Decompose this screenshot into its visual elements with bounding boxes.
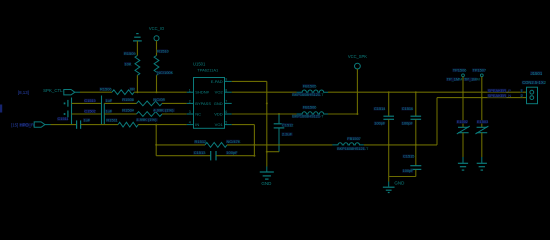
svg-text:VO2: VO2 [215, 90, 224, 95]
pin 6 VDD [214, 110, 231, 116]
svg-text:R1509: R1509 [124, 51, 137, 56]
resistor R1504 [122, 108, 175, 117]
svg-text:9: 9 [225, 78, 227, 82]
wire (C1515 return) [389, 176, 416, 178]
svg-text:1: 1 [521, 89, 523, 93]
page ref [15] [11, 122, 18, 127]
wire (C1513 row left) [156, 155, 211, 157]
ground (U1501 GND) [260, 172, 274, 186]
svg-text:[8,13]: [8,13] [18, 90, 29, 95]
svg-text:100pF: 100pF [403, 168, 415, 173]
junction (EPAD-GND) [266, 102, 268, 104]
capacitor C1510 [64, 98, 113, 107]
page ref [8,13] [18, 90, 29, 95]
svg-text:0R: 0R [130, 86, 135, 91]
svg-text:SPEAKER_N: SPEAKER_N [488, 93, 512, 98]
svg-text:E-PAD: E-PAD [211, 79, 223, 84]
svg-text:R1510: R1510 [157, 49, 170, 54]
svg-text:100pF: 100pF [402, 121, 414, 126]
capacitor C1515 [402, 145, 421, 177]
wire (node to FB1507) [254, 144, 332, 146]
ground (flipped, above R1509) [133, 34, 142, 41]
resistor R1508 [122, 97, 166, 106]
resistor R1509 [124, 51, 140, 76]
svg-text:1uF: 1uF [106, 108, 113, 113]
svg-text:J1501: J1501 [531, 71, 543, 76]
junction (C1513 node) [253, 155, 255, 157]
wire (FB1506 to VCC_SPK) [328, 113, 357, 115]
suppressor E1502 [456, 119, 469, 134]
wire (E-PAD) [232, 81, 267, 103]
svg-text:TP_1MM: TP_1MM [447, 77, 463, 82]
pin 4 IN [187, 121, 200, 127]
junction (C1514 bottom) [388, 144, 390, 146]
svg-text:C1515: C1515 [403, 154, 414, 159]
junction (C1512 on VDD) [278, 113, 280, 115]
svg-text:C1512: C1512 [282, 122, 293, 127]
svg-text:100pF: 100pF [374, 121, 386, 126]
wire (E1503 lead) [481, 98, 483, 128]
svg-text:VCC_IO: VCC_IO [149, 26, 164, 31]
wire (to R1508) [104, 102, 136, 104]
svg-text:FB1507: FB1507 [347, 136, 361, 141]
wire (FB1507 right) [364, 144, 437, 146]
junction (R1510 on SHDN) [156, 91, 158, 93]
svg-text:R1508: R1508 [122, 97, 135, 102]
svg-text:100pF: 100pF [226, 150, 238, 155]
wire (C1513 to node) [216, 155, 254, 157]
svg-text:BKP1608HS121-T: BKP1608HS121-T [292, 115, 324, 119]
pin 2 BYPASS [187, 100, 212, 106]
junction (TP1507) [481, 97, 483, 99]
wire (R1508 to pin 2) [162, 102, 187, 104]
svg-text:NC/47K: NC/47K [227, 139, 241, 144]
wire (R1506 to pin 1) [134, 91, 187, 93]
svg-text:R1511: R1511 [106, 118, 118, 123]
svg-text:VCC_SPK: VCC_SPK [348, 54, 367, 59]
svg-text:R1506: R1506 [100, 87, 113, 92]
pin 3 NC [187, 110, 201, 116]
net flag SPK_CTL [64, 90, 75, 95]
junction (C1514 top) [388, 91, 390, 93]
power VCC_IO [149, 26, 164, 41]
svg-text:4: 4 [189, 121, 191, 125]
svg-text:FB1505: FB1505 [303, 83, 317, 88]
wire (to R1512) [156, 144, 205, 146]
net label SPK_CTL [43, 88, 63, 93]
ferrite bead FB1507 [332, 136, 369, 151]
svg-text:C1511: C1511 [58, 116, 69, 121]
svg-text:SPK_CTL: SPK_CTL [43, 88, 63, 93]
wire (VCC_IO to R1510) [156, 41, 158, 56]
svg-text:GND: GND [394, 180, 405, 185]
pin 1 SHDN# [187, 88, 210, 94]
wire (vertical at 104.3) [103, 103, 105, 124]
svg-text:TP_1MM: TP_1MM [464, 77, 480, 82]
svg-text:FB1506: FB1506 [303, 105, 317, 110]
svg-text:BYPASS: BYPASS [195, 101, 211, 106]
wire (SPEAKER_P line) [328, 91, 527, 93]
svg-text:TPA6211A1: TPA6211A1 [197, 67, 219, 72]
svg-text:5: 5 [225, 121, 227, 125]
net label fragment (left edge) [0, 105, 2, 113]
svg-text:R1512: R1512 [195, 139, 208, 144]
svg-text:BKP1608HS121-T: BKP1608HS121-T [292, 93, 324, 97]
wire (E1502 lead) [462, 92, 464, 127]
capacitor C1502 [64, 108, 113, 117]
wire (HPO_R to C1511) [45, 124, 77, 126]
suppressor E1503 [475, 119, 488, 134]
svg-text:[15]: [15] [11, 122, 18, 127]
svg-text:BKP1608HS121-T: BKP1608HS121-T [337, 147, 369, 151]
ferrite bead FB1506 [292, 105, 328, 119]
junction (R1512 left) [155, 144, 157, 146]
svg-text:4.99K (1%): 4.99K (1%) [153, 108, 174, 113]
capacitor C1513 [193, 150, 238, 160]
capacitor C1514 [374, 92, 394, 145]
wire (VDD to FB1506) [232, 113, 297, 115]
ground (E1502) [458, 163, 468, 170]
wire (gnd stem) [388, 145, 390, 187]
svg-text:E1503: E1503 [477, 119, 488, 124]
wire (SPEAKER_N riser) [437, 98, 527, 145]
op-amp U1501 TPA6211A1 body [193, 61, 225, 128]
svg-text:C1502: C1502 [84, 108, 95, 113]
capacitor C1512 [274, 114, 294, 152]
net label SPEAKER_N [487, 93, 511, 98]
wire (R1509 to SHDN net) [136, 75, 138, 92]
svg-text:2: 2 [521, 94, 523, 98]
svg-text:4.99K (1%): 4.99K (1%) [136, 117, 157, 122]
svg-text:C1514: C1514 [374, 106, 386, 111]
junction (TP1506) [462, 91, 464, 93]
wire (TP1506 down) [462, 77, 464, 93]
wire (C1511 to R1511) [81, 124, 118, 126]
svg-text:E1502: E1502 [457, 119, 468, 124]
svg-text:2.2uF: 2.2uF [282, 132, 293, 137]
pin 8 VO2 [215, 88, 232, 94]
capacitor C1511 [57, 116, 91, 129]
junction (R1509 on SHDN) [136, 91, 138, 93]
svg-text:10K: 10K [124, 61, 131, 66]
wire (row B stub) [72, 102, 102, 104]
junction (C1516 top) [415, 91, 417, 93]
test point TP1507 [464, 68, 487, 82]
net label SPEAKER_P [487, 88, 511, 93]
svg-text:GND: GND [261, 181, 272, 186]
wire (VO2 to FB1505) [232, 91, 297, 93]
power VCC_SPK [348, 54, 367, 69]
wire (VO1 to feedback) [232, 125, 255, 156]
net flag HPO_R [34, 122, 45, 127]
connector J1501 [520, 71, 546, 104]
svg-text:VO1: VO1 [215, 122, 224, 127]
wire (IN node down) [155, 125, 157, 156]
svg-text:TP1507: TP1507 [473, 68, 487, 73]
wire (R1504 to pin 3) [162, 113, 187, 115]
svg-text:GND: GND [214, 101, 223, 106]
ground (E1503) [477, 163, 487, 170]
wire (R1511 to pin 4) [138, 124, 187, 126]
svg-text:1uF: 1uF [106, 98, 113, 103]
pin 5 VO1 [215, 121, 232, 127]
pin 7 GND [214, 100, 232, 106]
svg-text:2: 2 [189, 100, 191, 104]
svg-text:VDD: VDD [214, 112, 223, 117]
net label HPO_R [19, 122, 34, 127]
wire (cap bus vertical) [71, 98, 73, 125]
wire (to R1504) [104, 113, 136, 115]
junction (feedback tap) [155, 124, 157, 126]
resistor R1511 [106, 117, 158, 127]
svg-text:NC/0R: NC/0R [153, 97, 165, 102]
svg-text:CON2.5-1X2: CON2.5-1X2 [522, 80, 546, 85]
svg-text:6: 6 [225, 110, 227, 114]
svg-text:R1504: R1504 [122, 108, 135, 113]
ferrite bead FB1505 [292, 83, 328, 97]
svg-text:U1501: U1501 [193, 61, 206, 66]
wire (C1512 to gnd stem) [267, 151, 279, 153]
resistor R1512 [194, 139, 241, 147]
svg-text:HPO_R: HPO_R [20, 122, 34, 127]
svg-text:NC: NC [195, 112, 201, 117]
junction (VCC_SPK-VDD) [356, 113, 358, 115]
svg-text:C1516: C1516 [402, 106, 413, 111]
junction (feedback node) [253, 144, 255, 146]
wire (row C stub) [72, 113, 102, 115]
test point TP1506 [446, 68, 466, 82]
wire (VCC_SPK down) [356, 69, 358, 114]
svg-text:C1513: C1513 [194, 150, 207, 155]
svg-text:SHDN#: SHDN# [195, 90, 209, 95]
wire (E1503 to gnd) [481, 133, 483, 163]
wire (R1510 to SHDN net) [156, 75, 158, 92]
svg-text:C1510: C1510 [84, 98, 96, 103]
junction (C1512 return) [266, 151, 268, 153]
resistor R1510 [154, 49, 174, 76]
resistor R1506 [100, 86, 136, 94]
svg-text:NC/100K: NC/100K [157, 70, 174, 75]
wire (GND pin down) [266, 103, 268, 171]
svg-text:SPEAKER_P: SPEAKER_P [488, 88, 512, 93]
wire (ground to R1509) [136, 41, 138, 56]
svg-text:1uF: 1uF [84, 117, 91, 122]
svg-text:7: 7 [225, 100, 227, 104]
pin 9 E-PAD [211, 78, 232, 84]
svg-text:3: 3 [189, 110, 191, 114]
svg-text:IN: IN [195, 122, 199, 127]
wire (SPK_CTL to R1506) [75, 91, 112, 93]
svg-text:TP1506: TP1506 [453, 68, 467, 73]
svg-text:8: 8 [225, 88, 227, 92]
capacitor C1516 [401, 92, 421, 145]
wire (TP1507 down) [481, 77, 483, 98]
wire (E1502 to gnd) [462, 133, 464, 163]
junction (C1516 bottom) [415, 144, 417, 146]
svg-text:1: 1 [189, 88, 191, 92]
ground (output filter) [383, 180, 405, 192]
wire (R1512 to node) [227, 144, 254, 146]
wire (vertical at 101.5) [101, 96, 103, 125]
